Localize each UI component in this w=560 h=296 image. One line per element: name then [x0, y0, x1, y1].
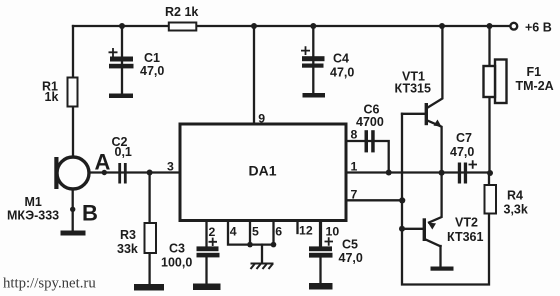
svg-text:100,0: 100,0	[161, 256, 192, 270]
svg-text:3,3k: 3,3k	[504, 203, 528, 217]
svg-text:12: 12	[299, 224, 313, 238]
svg-text:R3: R3	[120, 228, 136, 242]
svg-text:7: 7	[351, 188, 358, 202]
svg-text:C1: C1	[144, 51, 160, 65]
svg-text:КТ361: КТ361	[447, 230, 483, 244]
svg-text:33k: 33k	[117, 242, 138, 256]
svg-text:47,0: 47,0	[330, 66, 354, 80]
svg-text:4: 4	[230, 225, 237, 239]
svg-text:+6 В: +6 В	[525, 21, 552, 35]
svg-text:А: А	[95, 150, 111, 175]
svg-text:VT2: VT2	[455, 216, 478, 230]
svg-text:DA1: DA1	[249, 163, 277, 179]
svg-text:КТ315: КТ315	[395, 82, 431, 96]
svg-text:C5: C5	[342, 238, 358, 252]
svg-text:1k: 1k	[45, 90, 59, 104]
svg-text:6: 6	[275, 225, 282, 239]
svg-text:ТМ-2А: ТМ-2А	[516, 79, 554, 93]
svg-text:4700: 4700	[356, 115, 384, 129]
svg-text:C7: C7	[456, 131, 472, 145]
svg-text:9: 9	[258, 111, 265, 125]
svg-text:0,1: 0,1	[115, 145, 132, 159]
svg-text:МКЭ-333: МКЭ-333	[7, 209, 59, 223]
svg-text:47,0: 47,0	[339, 251, 363, 265]
svg-text:R4: R4	[507, 189, 523, 203]
svg-text:F1: F1	[527, 65, 542, 79]
svg-text:47,0: 47,0	[450, 145, 474, 159]
svg-text:В: В	[82, 201, 98, 226]
svg-text:5: 5	[252, 225, 259, 239]
svg-text:8: 8	[351, 128, 358, 142]
svg-text:10: 10	[326, 225, 340, 239]
svg-text:C4: C4	[333, 52, 349, 66]
svg-text:М1: М1	[25, 195, 42, 209]
svg-text:1: 1	[351, 160, 358, 174]
svg-text:C3: C3	[169, 242, 185, 256]
svg-text:http://spy.net.ru: http://spy.net.ru	[3, 276, 96, 292]
svg-text:47,0: 47,0	[140, 64, 164, 78]
svg-text:2: 2	[209, 225, 216, 239]
svg-text:3: 3	[167, 160, 174, 174]
svg-text:R2 1k: R2 1k	[165, 5, 198, 19]
